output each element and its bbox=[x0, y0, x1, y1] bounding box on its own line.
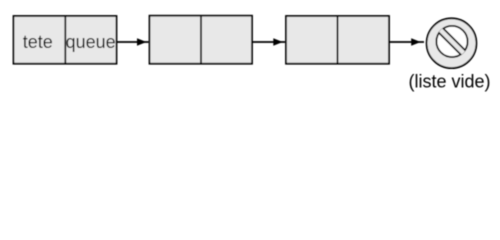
wire arrow 2 shaft bbox=[253, 41, 286, 43]
node box 3 bbox=[286, 16, 389, 64]
svg-text:tete: tete bbox=[23, 32, 53, 52]
svg-text:(liste vide): (liste vide) bbox=[408, 72, 490, 92]
null symbol outer circle bbox=[427, 18, 477, 68]
wire arrow 1 shaft bbox=[117, 41, 149, 43]
null symbol diagonal bar bbox=[437, 27, 467, 57]
divider box 1 bbox=[64, 16, 66, 64]
divider box 3 bbox=[337, 16, 339, 64]
arrowhead 3 bbox=[411, 38, 421, 46]
node box 2 bbox=[150, 16, 253, 64]
divider box 2 bbox=[200, 16, 202, 64]
node box 1 (tete/queue) bbox=[14, 16, 117, 64]
svg-text:queue: queue bbox=[66, 32, 116, 52]
wire arrow 3 shaft bbox=[390, 41, 425, 43]
arrowhead 1 bbox=[137, 38, 147, 46]
arrowhead 2 bbox=[273, 38, 283, 46]
null symbol inner circle bbox=[436, 26, 467, 57]
